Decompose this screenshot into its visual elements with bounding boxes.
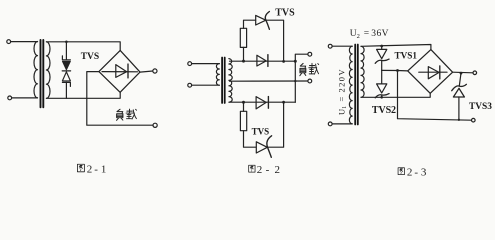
svg-text:-: - <box>414 166 418 178</box>
svg-text:1: 1 <box>342 106 348 109</box>
svg-text:2: 2 <box>275 164 281 176</box>
svg-text:36V: 36V <box>371 29 389 39</box>
svg-text:2: 2 <box>87 163 93 175</box>
svg-text:=: = <box>364 29 369 39</box>
svg-text:TVS1: TVS1 <box>395 50 418 60</box>
svg-text:2: 2 <box>407 166 413 178</box>
svg-text:TVS: TVS <box>275 8 295 19</box>
svg-text:1: 1 <box>101 163 107 175</box>
svg-text:=: = <box>337 97 347 102</box>
svg-text:TVS: TVS <box>252 126 270 136</box>
svg-text:U: U <box>337 109 347 115</box>
svg-text:TVS: TVS <box>81 52 99 62</box>
svg-text:220V: 220V <box>337 68 347 93</box>
svg-text:-: - <box>94 163 98 175</box>
svg-text:2: 2 <box>257 164 263 176</box>
svg-text:TVS3: TVS3 <box>469 102 492 112</box>
svg-text:3: 3 <box>421 166 427 178</box>
svg-text:TVS2: TVS2 <box>372 105 396 116</box>
svg-text:2: 2 <box>357 33 360 40</box>
svg-text:-: - <box>266 164 270 176</box>
